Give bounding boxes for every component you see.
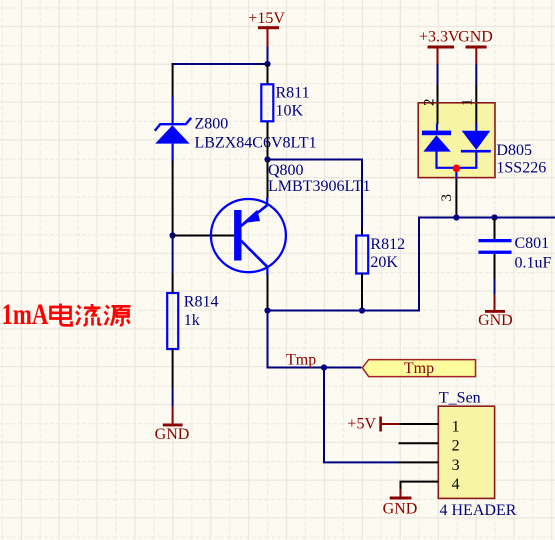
wire to D805 pin2 [437, 64, 439, 85]
CJK liu [76, 304, 101, 326]
wire R811 bottom pin [267, 122, 269, 160]
wire R814 bottom pin [172, 349, 174, 388]
svg-text:GND: GND [155, 426, 190, 443]
wire C801 top pin [494, 218, 496, 240]
power +15V [248, 10, 285, 47]
svg-text:1k: 1k [184, 312, 200, 329]
pin 3 [399, 461, 439, 463]
svg-text:C801: C801 [515, 235, 550, 252]
svg-text:Z800: Z800 [195, 115, 229, 132]
wire R812 bottom pin [361, 273, 363, 311]
svg-text:1: 1 [452, 418, 460, 435]
diode pack D805 [418, 99, 546, 178]
transistor Q800 [211, 162, 371, 275]
zener Z800 [155, 97, 317, 162]
node base junction [170, 232, 176, 238]
connector T_Sen [438, 390, 516, 520]
wire R814 top pin [172, 274, 174, 294]
wire R811 top pin [267, 64, 269, 84]
wire +15V to top node [267, 47, 269, 65]
svg-text:+3.3V: +3.3V [419, 28, 460, 45]
node pin3 junction [453, 214, 459, 220]
wire top horizontal [172, 63, 268, 65]
wire Tmp down to pin3 [324, 368, 399, 463]
wire zener bottom pin [172, 160, 174, 236]
svg-text:+15V: +15V [248, 10, 285, 27]
wire C801 bottom pin [494, 254, 496, 279]
svg-text:GND: GND [458, 28, 493, 45]
svg-text:20K: 20K [370, 254, 398, 271]
svg-text:GND: GND [383, 501, 418, 518]
svg-text:Q800: Q800 [268, 162, 304, 179]
svg-text:Tmp: Tmp [286, 351, 316, 368]
wire D805 pin3 lead [455, 178, 457, 218]
node Tmp junction [321, 364, 327, 370]
capacitor C801 [479, 235, 552, 272]
svg-text:+5V: +5V [347, 415, 376, 432]
svg-text:4: 4 [452, 476, 460, 493]
svg-text:1mA: 1mA [2, 297, 49, 331]
ground left GND [155, 406, 190, 443]
svg-text:3: 3 [452, 457, 460, 474]
resistor R811 [261, 84, 309, 121]
wire to left ground [172, 388, 174, 407]
svg-text:LMBT3906LT1: LMBT3906LT1 [268, 178, 371, 195]
wire zener top pin [172, 63, 174, 98]
CJK yuan [105, 306, 131, 326]
wire collector to Tmp [268, 311, 362, 368]
pin 4 [401, 482, 439, 490]
title 1mA current source [2, 297, 131, 331]
node C801 junction [491, 214, 497, 220]
svg-text:R812: R812 [370, 236, 405, 253]
svg-text:R811: R811 [276, 84, 310, 101]
svg-text:2: 2 [422, 99, 438, 107]
svg-text:10K: 10K [276, 103, 304, 120]
wire emitter row to R812 [268, 160, 363, 229]
svg-text:LBZX84C6V8LT1: LBZX84C6V8LT1 [195, 135, 317, 152]
svg-text:3: 3 [439, 194, 455, 202]
wire to C801 ground [494, 279, 496, 295]
ground GND bottom [383, 489, 418, 518]
node collector junction [264, 307, 270, 313]
svg-text:T_Sen: T_Sen [439, 390, 481, 407]
power +3.3V [419, 28, 460, 64]
ground GND under C801 [478, 295, 513, 330]
wire base [173, 235, 235, 237]
resistor R812 [356, 236, 405, 274]
port flag Tmp [362, 360, 475, 377]
wire left mid segment [172, 236, 174, 274]
pin 1 [399, 423, 438, 425]
wire collector pin [267, 275, 269, 311]
transistor Q2800 emitter pin [267, 160, 269, 199]
svg-text:0.1uF: 0.1uF [515, 255, 552, 272]
power +5V [347, 415, 399, 432]
svg-text:D805: D805 [496, 142, 532, 159]
node top junction [264, 61, 270, 67]
svg-text:Tmp: Tmp [404, 360, 434, 377]
svg-text:1: 1 [460, 99, 476, 107]
svg-text:R814: R814 [184, 294, 219, 311]
svg-text:4 HEADER: 4 HEADER [440, 502, 517, 519]
resistor R814 [167, 293, 218, 349]
svg-text:2: 2 [452, 438, 460, 455]
power GND top [458, 28, 493, 64]
CJK dian [51, 304, 72, 326]
svg-text:GND: GND [478, 312, 513, 329]
wire D805 pin1 lead [475, 85, 477, 125]
node emitter junction [264, 156, 270, 162]
wire D805 pin2 lead [437, 85, 439, 125]
wire R812 top pin [361, 228, 363, 236]
svg-text:1SS226: 1SS226 [496, 159, 546, 176]
wire to D805 pin1 [475, 64, 477, 85]
pin 2 [399, 442, 439, 444]
wire bottom row to right elbow [268, 218, 555, 311]
node R812 bottom junction [359, 307, 365, 313]
